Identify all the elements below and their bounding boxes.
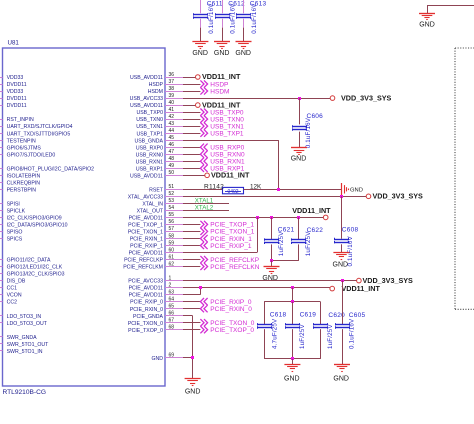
svg-text:PCIE_AVDD11: PCIE_AVDD11	[129, 286, 164, 292]
svg-text:1: 1	[169, 275, 172, 281]
left pin GPIO8/HOT_PLUG/I2C_DATA/SPIO2	[0, 166, 94, 172]
svg-text:PCIE_AVCC33: PCIE_AVCC33	[128, 279, 163, 285]
power port VDD11_INT pin40	[196, 100, 241, 109]
wire PCIE_TXOP_1	[183, 224, 200, 226]
net label PCIE_TXON_1	[200, 228, 254, 236]
svg-text:GND: GND	[419, 22, 435, 29]
ground top right	[419, 14, 435, 29]
svg-text:GPIO7/SJTDO/LED0: GPIO7/SJTDO/LED0	[7, 152, 56, 158]
pin 58 PCIE_RXIN_1	[130, 233, 185, 242]
svg-text:GND: GND	[151, 356, 163, 362]
svg-text:USB_TXN0: USB_TXN0	[210, 116, 244, 123]
svg-text:VDD11_INT: VDD11_INT	[342, 284, 381, 293]
pin 50 USB_AVDD11	[130, 170, 185, 179]
svg-text:RSET: RSET	[149, 187, 164, 193]
wire PCIE_TXON_0	[183, 322, 200, 324]
net label HSDP	[200, 80, 228, 88]
svg-text:0.1uF/16V: 0.1uF/16V	[305, 117, 312, 148]
pin 60 PCIE_AVDD11	[129, 247, 185, 256]
net label USB_RXN1	[200, 158, 245, 166]
ground C608	[333, 253, 350, 269]
svg-text:PCIE_AVDD11: PCIE_AVDD11	[129, 293, 164, 299]
wire pin60 PCIE_AVDD11	[183, 217, 258, 252]
sheet boundary dotted	[455, 48, 474, 309]
svg-text:UART_TXD/SJTTDI/GPIO5: UART_TXD/SJTTDI/GPIO5	[7, 131, 71, 137]
pin 53 XTAL_IN	[142, 198, 185, 207]
svg-text:62: 62	[169, 261, 175, 267]
svg-text:HSDM: HSDM	[148, 89, 163, 95]
label C619	[300, 312, 317, 319]
capacitor C611	[193, 0, 207, 42]
svg-text:XTAL2: XTAL2	[195, 205, 214, 212]
svg-text:52: 52	[169, 191, 175, 197]
svg-text:GND: GND	[350, 188, 363, 194]
pin 1 PCIE_AVCC33	[128, 275, 185, 284]
ground C611	[192, 42, 208, 57]
svg-text:TESTENPIN: TESTENPIN	[7, 138, 36, 144]
svg-text:C608: C608	[342, 226, 359, 233]
pin 37 HSDP	[149, 79, 185, 88]
svg-text:GPIO12/LED1/I2C_CLK: GPIO12/LED1/I2C_CLK	[7, 265, 63, 271]
svg-text:42: 42	[169, 114, 175, 120]
junction C605 rail tap	[341, 279, 344, 282]
svg-text:USB_AVDD11: USB_AVDD11	[130, 75, 163, 81]
pin 54 XTAL_OUT	[137, 205, 185, 214]
wire PCIE_TXOP_0	[183, 329, 200, 331]
svg-text:PCIE_TXOP_0: PCIE_TXOP_0	[210, 327, 254, 334]
svg-text:PERSTBPIN: PERSTBPIN	[7, 187, 37, 193]
net label PCIE_RXIP_0	[200, 298, 251, 306]
net label PCIE_REFCLKP	[200, 256, 259, 264]
svg-text:2: 2	[169, 282, 172, 288]
left pin CLKREQBPIN	[0, 180, 40, 186]
wire pin50 to power port	[183, 175, 205, 177]
svg-text:SPICLK: SPICLK	[7, 209, 26, 215]
svg-text:PCIE_REFCLKN: PCIE_REFCLKN	[210, 264, 259, 271]
wire pin36 to power port	[183, 77, 196, 79]
pin 44 USB_TXP1	[136, 128, 185, 137]
svg-text:I2C_CLK/SPIO3/GPIO9: I2C_CLK/SPIO3/GPIO9	[7, 216, 62, 222]
svg-text:GND: GND	[333, 375, 349, 382]
svg-text:SPICS: SPICS	[7, 237, 23, 243]
svg-text:PCIE_RXIN_0: PCIE_RXIN_0	[130, 307, 163, 313]
wire top right	[427, 6, 474, 14]
svg-text:PCIE_REFCLKP: PCIE_REFCLKP	[124, 258, 163, 264]
left pin I2C_CLK/SPIO3/GPIO9	[0, 216, 62, 222]
svg-text:GND: GND	[333, 261, 349, 268]
ground C612	[214, 42, 230, 57]
svg-text:VDD11_INT: VDD11_INT	[211, 171, 250, 180]
svg-text:41: 41	[169, 107, 175, 113]
svg-text:USB_RXP0: USB_RXP0	[136, 145, 163, 151]
svg-text:1uF/25V: 1uF/25V	[305, 231, 312, 256]
pin 45 USB_GNDA	[134, 135, 185, 144]
svg-text:PCIE_TXOP_0: PCIE_TXOP_0	[128, 328, 163, 334]
svg-text:GPIO8/HOT_PLUG/I2C_DATA/SPIO2: GPIO8/HOT_PLUG/I2C_DATA/SPIO2	[7, 166, 95, 172]
value C620 1uF/25V	[327, 324, 334, 349]
svg-text:0402: 0402	[227, 189, 238, 195]
svg-text:VCON: VCON	[7, 293, 22, 299]
left pin GPIO7/SJTDO/LED0	[0, 152, 55, 158]
pin 63 PCIE_AVDD11	[129, 289, 185, 298]
capacitor C620	[314, 302, 328, 359]
svg-text:44: 44	[169, 128, 175, 134]
svg-text:69: 69	[169, 353, 175, 359]
pin 67 PCIE_TXON_0	[128, 318, 185, 327]
svg-text:43: 43	[169, 121, 175, 127]
power port VDD11_INT pin36	[196, 72, 241, 81]
power port VDD_3V3_SYS mid	[366, 192, 423, 201]
junction C621 tap	[270, 216, 273, 219]
svg-text:HSDM: HSDM	[210, 88, 229, 95]
svg-text:SWR_GNDA: SWR_GNDA	[7, 335, 38, 341]
svg-text:60: 60	[169, 247, 175, 253]
junction pin66 joins pin69	[191, 356, 194, 359]
svg-text:PCIE_TXON_1: PCIE_TXON_1	[210, 229, 254, 236]
net label PCIE_RXIP_1	[200, 242, 251, 250]
svg-text:VDD33: VDD33	[7, 75, 24, 81]
svg-text:VDD11_INT: VDD11_INT	[292, 206, 331, 215]
svg-text:USB_AVCC33: USB_AVCC33	[130, 96, 163, 102]
capacitor C606	[292, 98, 307, 148]
capacitor C622	[292, 217, 306, 260]
left pin GPIO6/SJTMS	[0, 145, 41, 151]
value C622 1uF/25V	[305, 231, 312, 256]
svg-text:PCIE_GNDA: PCIE_GNDA	[133, 314, 164, 320]
svg-text:57: 57	[169, 226, 175, 232]
svg-text:LDO_5TO3_IN: LDO_5TO3_IN	[7, 314, 42, 320]
left pin GPIO11/I2C_DATA	[0, 258, 51, 264]
capacitor C608	[334, 196, 348, 252]
svg-text:49: 49	[169, 163, 175, 169]
svg-text:38: 38	[169, 86, 175, 92]
net label USB_TXP1	[200, 130, 244, 138]
wire C621 gnd drop	[271, 260, 273, 266]
left pin VCON	[0, 293, 22, 299]
wire USB_TXN1	[183, 126, 200, 128]
left pin GPIO12/LED1/I2C_CLK	[0, 265, 63, 271]
net label XTAL2	[195, 205, 214, 212]
pin 55 PCIE_AVDD11	[129, 212, 185, 221]
wire USB_RXN0	[183, 154, 200, 156]
svg-text:USB_RXN1: USB_RXN1	[136, 159, 164, 165]
svg-text:56: 56	[169, 219, 175, 225]
IC U81 RTL9210B-CG body	[3, 48, 166, 386]
label R1142	[204, 183, 224, 190]
value C613 0.1uF/16V	[251, 3, 258, 34]
svg-text:VDD11_INT: VDD11_INT	[202, 72, 241, 81]
svg-text:1uF/25V: 1uF/25V	[278, 231, 285, 256]
svg-text:XTAL_IN: XTAL_IN	[142, 202, 163, 208]
wire PCIE_RXIN_1	[183, 238, 200, 240]
svg-text:58: 58	[169, 233, 175, 239]
svg-text:U81: U81	[8, 40, 20, 47]
pin 49 USB_RXP1	[136, 163, 185, 172]
junction cap bank top	[291, 300, 294, 303]
svg-text:4.7uF/25V: 4.7uF/25V	[272, 318, 279, 349]
svg-text:C619: C619	[300, 312, 317, 319]
left pin ISOLATEBPIN	[0, 173, 40, 179]
svg-text:RTL9210B-CG: RTL9210B-CG	[3, 389, 47, 396]
pin 57 PCIE_TXON_1	[128, 226, 185, 235]
pin 62 PCIE_REFCLKM	[123, 261, 185, 270]
left pin I2C_DATA/SPIO3/GPIO10	[0, 223, 68, 229]
svg-text:UART_RXD/SJTCLK/GPIO4: UART_RXD/SJTCLK/GPIO4	[7, 124, 73, 130]
svg-text:HSDP: HSDP	[210, 81, 228, 88]
wire USB_RXN1	[183, 161, 200, 163]
svg-text:HSDP: HSDP	[149, 82, 164, 88]
pin 59 PCIE_RXIP_1	[130, 240, 185, 249]
svg-text:RST_INPIN: RST_INPIN	[7, 117, 34, 123]
svg-text:USB_TXN0: USB_TXN0	[136, 117, 163, 123]
wire pin52 XTAL_AVCC33 rail	[183, 196, 366, 198]
left pin DVDD11	[0, 103, 27, 109]
net label PCIE_TXON_0	[200, 319, 254, 327]
label C608	[342, 226, 359, 233]
svg-text:VDD11_INT: VDD11_INT	[202, 100, 241, 109]
wire XTAL_IN	[183, 203, 229, 205]
capacitor C621	[265, 217, 279, 260]
ground pin69	[185, 379, 201, 396]
wire RSET to resistor	[183, 189, 223, 191]
svg-text:USB_TXP1: USB_TXP1	[136, 131, 163, 137]
wire PCIE_REFCLKN	[183, 266, 200, 268]
svg-text:VDD_3V3_SYS: VDD_3V3_SYS	[373, 192, 424, 201]
svg-text:R1142: R1142	[204, 183, 224, 190]
net label PCIE_TXOP_0	[200, 326, 254, 334]
wire USB_TXP0	[183, 112, 200, 114]
wire VDD_3V3 rail down	[342, 281, 344, 325]
left pin SPISO	[0, 230, 22, 236]
left pin SPICS	[0, 237, 23, 243]
left pin DVDD11	[0, 96, 27, 102]
svg-text:XTAL1: XTAL1	[195, 198, 214, 205]
svg-text:CLKREQBPIN: CLKREQBPIN	[7, 180, 41, 186]
wire cap bank bottom rail	[264, 358, 320, 360]
label C605	[349, 312, 366, 319]
svg-text:PCIE_AVDD11: PCIE_AVDD11	[129, 216, 164, 222]
junction C606 tap	[298, 97, 301, 100]
wire pin69 GND	[183, 358, 193, 379]
wire PCIE_TXON_1	[183, 231, 200, 233]
svg-text:PCIE_RXIP_1: PCIE_RXIP_1	[210, 243, 252, 250]
svg-text:XTAL_OUT: XTAL_OUT	[137, 209, 164, 215]
svg-text:GND: GND	[185, 389, 201, 396]
net label PCIE_REFCLKN	[200, 263, 259, 271]
svg-text:59: 59	[169, 240, 175, 246]
svg-text:51: 51	[169, 184, 175, 190]
svg-text:50: 50	[169, 170, 175, 176]
svg-text:I2C_DATA/SPIO3/GPIO10: I2C_DATA/SPIO3/GPIO10	[7, 223, 68, 229]
left pin CC2	[0, 300, 17, 306]
wire PCIE_RXIP_1	[183, 245, 200, 247]
left pin LDO_5TO3_IN	[0, 314, 41, 320]
svg-text:SWR_5TO1_OUT: SWR_5TO1_OUT	[7, 342, 50, 348]
pin 66 PCIE_GNDA	[133, 311, 185, 320]
svg-text:PCIE_RXIN_1: PCIE_RXIN_1	[130, 237, 163, 243]
wire pin63 tie	[183, 288, 201, 295]
power port VDD_3V3_SYS bottom	[357, 276, 413, 285]
net label XTAL1	[195, 198, 214, 205]
ground C621 C622	[262, 267, 279, 282]
label C622	[307, 227, 324, 234]
svg-text:C605: C605	[349, 312, 366, 319]
svg-text:USB_RXP1: USB_RXP1	[136, 166, 163, 172]
label C611	[207, 0, 223, 7]
svg-text:36: 36	[169, 72, 175, 78]
net label USB_RXP1	[200, 165, 244, 173]
junction C622 tap	[297, 216, 300, 219]
pin 61 PCIE_REFCLKP	[124, 254, 185, 263]
designator U81	[8, 40, 20, 47]
net label PCIE_TXOP_1	[200, 221, 254, 229]
ground C613	[235, 42, 251, 57]
svg-text:GND: GND	[235, 50, 251, 57]
svg-text:USB_AVDD11: USB_AVDD11	[130, 103, 163, 109]
value C621 1uF/25V	[278, 231, 285, 256]
capacitor C613	[237, 0, 251, 42]
svg-text:0.1uF/16V: 0.1uF/16V	[349, 318, 356, 349]
svg-text:USB_TXN1: USB_TXN1	[136, 124, 163, 130]
svg-text:63: 63	[169, 289, 175, 295]
svg-text:PCIE_RXIP_0: PCIE_RXIP_0	[210, 299, 252, 306]
wire pin55 PCIE_AVDD11 rail	[183, 217, 323, 219]
power port VDD11_INT bottom	[330, 284, 381, 293]
ground C605	[333, 365, 350, 383]
capacitor C612	[215, 0, 230, 42]
svg-text:DVDD11: DVDD11	[7, 103, 27, 109]
label C606	[307, 113, 324, 120]
svg-text:66: 66	[169, 311, 175, 317]
svg-text:37: 37	[169, 79, 175, 85]
value C606 0.1uF/16V	[305, 117, 312, 148]
left pin SPICLK	[0, 209, 26, 215]
wire USB_TXP1	[183, 133, 200, 135]
svg-text:SPISO: SPISO	[7, 230, 23, 236]
svg-text:USB_AVDD11: USB_AVDD11	[130, 173, 163, 179]
left pin PERSTBPIN	[0, 187, 36, 193]
net label USB_RXN0	[200, 151, 245, 159]
wire pin45 USB_GNDA	[183, 140, 279, 189]
value C612 0.1uF/16V	[230, 3, 237, 34]
pin 38 HSDM	[148, 86, 185, 95]
junction cap bank bottom	[291, 357, 294, 360]
svg-text:USB_RXN1: USB_RXN1	[210, 159, 245, 166]
svg-text:0.1uF/16V: 0.1uF/16V	[208, 3, 215, 34]
svg-text:PCIE_REFCLKM: PCIE_REFCLKM	[123, 265, 163, 271]
left pin UART_TXD/SJTTDI/GPIO5	[0, 131, 70, 137]
svg-text:CC2: CC2	[7, 300, 17, 306]
net label PCIE_RXIN_1	[200, 235, 252, 243]
svg-text:USB_TXP1: USB_TXP1	[210, 131, 244, 138]
pin 69 GND	[151, 353, 185, 362]
pin 64 PCIE_RXIP_0	[130, 296, 185, 305]
pin 48 USB_RXN1	[136, 156, 185, 165]
svg-text:GPIO11/I2C_DATA: GPIO11/I2C_DATA	[7, 258, 51, 264]
pin 40 USB_AVDD11	[130, 100, 185, 109]
svg-text:GND: GND	[291, 155, 307, 162]
svg-text:PCIE_REFCLKP: PCIE_REFCLKP	[210, 257, 259, 264]
pin 2 PCIE_AVDD11	[129, 282, 185, 291]
svg-text:GPIO13/I2C_CLK/SPIO3: GPIO13/I2C_CLK/SPIO3	[7, 272, 65, 278]
left pin SWR_GNDA	[0, 335, 37, 341]
junction pin2 tie	[199, 286, 202, 289]
resistor R1142	[223, 187, 244, 195]
svg-text:USB_TXP0: USB_TXP0	[136, 110, 163, 116]
svg-text:PCIE_AVDD11: PCIE_AVDD11	[129, 251, 164, 257]
wire PCIE_REFCLKP	[183, 259, 200, 261]
svg-text:PCIE_RXIN_0: PCIE_RXIN_0	[210, 306, 252, 313]
value C605 0.1uF/16V	[349, 318, 356, 349]
junction USB_GNDA joins RSET gnd wire	[277, 188, 280, 191]
svg-text:0.1uF/16V: 0.1uF/16V	[251, 3, 258, 34]
ground sideways at RSET	[342, 183, 363, 196]
pin 36 USB_AVDD11	[130, 72, 185, 81]
svg-text:CC1: CC1	[7, 286, 17, 292]
svg-text:DVDD11: DVDD11	[7, 82, 27, 88]
junction C619 tap	[291, 286, 294, 289]
left pin DIS_DB	[0, 279, 26, 285]
svg-text:0.1uF/16V: 0.1uF/16V	[230, 3, 237, 34]
wire pin38	[183, 91, 200, 93]
wire pin1 PCIE_AVCC33 rail	[183, 280, 357, 282]
pin 46 USB_RXP0	[136, 142, 185, 151]
pin 52 XTAL_AVCC33	[128, 191, 185, 200]
svg-text:PCIE_TXON_0: PCIE_TXON_0	[210, 320, 254, 327]
svg-text:GND: GND	[284, 375, 300, 382]
svg-text:PCIE_TXON_0: PCIE_TXON_0	[128, 321, 163, 327]
left pin TESTENPIN	[0, 138, 36, 144]
wire pin37	[183, 84, 200, 86]
svg-text:PCIE_TXOP_1: PCIE_TXOP_1	[210, 222, 254, 229]
wire XTAL_OUT	[183, 210, 229, 212]
junction pin60 tie	[256, 216, 259, 219]
svg-text:XTAL_AVCC33: XTAL_AVCC33	[128, 194, 163, 200]
label C612	[228, 0, 245, 7]
wire C619 feed	[292, 288, 294, 302]
wire pin40 to power port	[183, 105, 196, 107]
value C611 0.1uF/16V	[208, 3, 215, 34]
left pin SWR_5TO1_OUT	[0, 342, 49, 348]
part number RTL9210B-CG	[3, 389, 47, 396]
svg-text:65: 65	[169, 304, 175, 310]
svg-text:GPIO6/SJTMS: GPIO6/SJTMS	[7, 145, 42, 151]
net label USB_TXN1	[200, 123, 244, 131]
wire USB_RXP1	[183, 168, 200, 170]
svg-text:47: 47	[169, 149, 175, 155]
left pin VDD33	[0, 89, 23, 95]
svg-text:39: 39	[169, 93, 175, 99]
label C613	[250, 0, 267, 7]
pin 42 USB_TXN0	[136, 114, 185, 123]
svg-text:61: 61	[169, 254, 175, 260]
wire USB_TXN0	[183, 119, 200, 121]
net label HSDM	[200, 87, 229, 95]
svg-text:67: 67	[169, 318, 175, 324]
ground cap bank	[284, 365, 300, 383]
svg-text:GND: GND	[214, 50, 230, 57]
svg-text:PCIE_RXIP_1: PCIE_RXIP_1	[130, 244, 163, 250]
svg-text:0.1uF/16V: 0.1uF/16V	[347, 235, 354, 266]
wire C621 C622 bottom rail	[272, 260, 299, 262]
value 12K	[250, 183, 262, 190]
wire PCIE_RXIP_0	[183, 301, 200, 303]
label C618	[270, 312, 287, 319]
svg-text:53: 53	[169, 198, 175, 204]
svg-text:64: 64	[169, 296, 175, 302]
svg-text:USB_RXN0: USB_RXN0	[136, 152, 164, 158]
wire USB_RXP0	[183, 147, 200, 149]
